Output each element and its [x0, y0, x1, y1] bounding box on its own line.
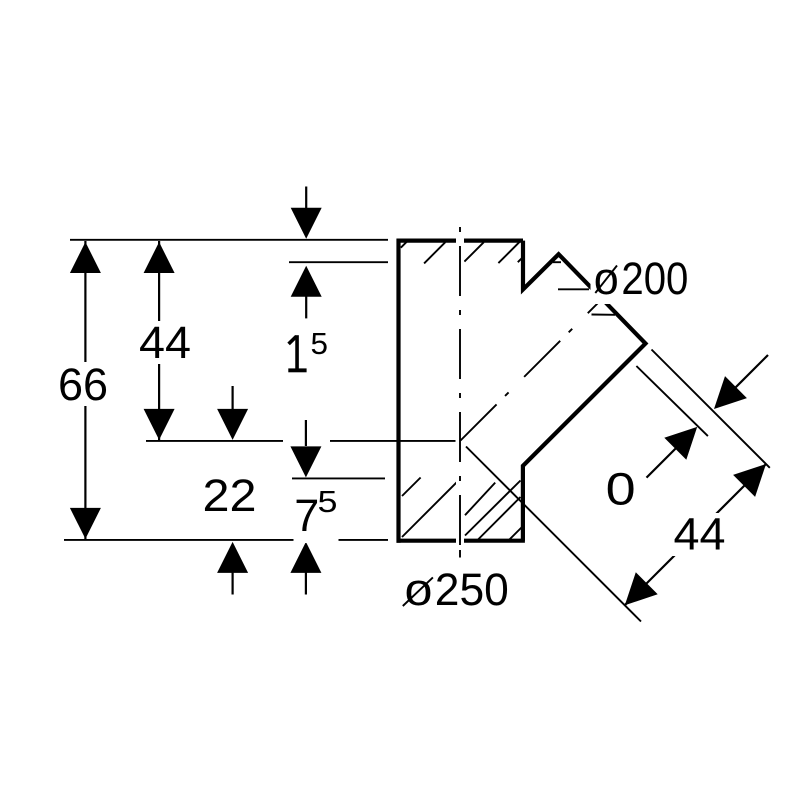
svg-text:7: 7: [294, 490, 319, 541]
svg-text:66: 66: [58, 359, 108, 410]
text 1.5: [278, 326, 333, 378]
svg-text:5: 5: [310, 326, 328, 361]
dimension 0 (diagonal, outside arrows): [647, 355, 769, 478]
7.5 upper extension line: [292, 477, 385, 479]
thin extension lines: [64, 240, 770, 622]
hatch top band: [401, 242, 522, 264]
bottom edge: [397, 539, 525, 543]
dimension 66: [70, 241, 101, 539]
branch axis extension line right part: [330, 440, 456, 442]
svg-text:5: 5: [317, 484, 337, 519]
notch and branch outer wall: [523, 241, 646, 541]
small line at branch end: [592, 314, 616, 316]
body outline: [397, 239, 646, 543]
1.5 lower extension line: [289, 261, 388, 263]
top extension line: [70, 239, 388, 241]
diagonal extension line L2: [636, 366, 708, 436]
o200 leader line: [558, 288, 589, 290]
branch axis centerline: [461, 294, 608, 441]
centerline white casing: [456, 225, 464, 556]
text 22: [199, 470, 260, 521]
hatch bottom band: [402, 478, 524, 541]
text 44 diagonal: [669, 508, 730, 559]
text o250: [398, 564, 517, 615]
dimension 22: [217, 386, 248, 595]
dimension 44 (diagonal): [625, 464, 766, 605]
text 7.5: [294, 484, 339, 543]
dimension 44 (vertical): [144, 241, 175, 440]
small line in notch: [553, 261, 561, 263]
svg-text:44: 44: [673, 508, 725, 559]
diagonal extension line L1: [652, 350, 770, 468]
dimension 7.5: [290, 420, 321, 595]
diagonal extension line P2: [466, 447, 641, 622]
svg-text:0: 0: [606, 463, 636, 514]
svg-text:44: 44: [139, 317, 191, 368]
text 66: [56, 359, 111, 410]
branch axis extension line left part: [146, 440, 283, 442]
left wall: [396, 239, 400, 543]
top edge: [397, 239, 524, 243]
text 44 vertical: [135, 317, 195, 368]
svg-text:250: 250: [435, 564, 509, 615]
text 0 diagonal: [601, 463, 640, 514]
vertical centerline: [459, 227, 461, 556]
text o200 with box clipping branch end face: [591, 253, 691, 304]
svg-text:o: o: [405, 564, 433, 615]
bottom extension line: [64, 539, 388, 541]
svg-text:22: 22: [202, 470, 256, 521]
svg-text:200: 200: [621, 253, 688, 304]
dimension 1.5: [291, 187, 322, 319]
